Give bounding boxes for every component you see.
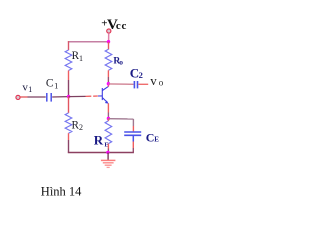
node collector [107, 82, 110, 85]
wire RE bottom lead [107, 144, 109, 149]
resistor R2 [65, 113, 72, 133]
ground [101, 153, 116, 168]
node ground junction [106, 151, 109, 154]
label CE [146, 131, 160, 145]
wire R2 top lead [68, 97, 70, 113]
resistor R1 [65, 50, 72, 71]
wire top rail [68, 41, 109, 43]
wire collector lead [107, 84, 109, 87]
resistor RE [105, 121, 112, 144]
wire R1 bottom lead [68, 71, 70, 81]
wire input to C1 [20, 96, 27, 98]
wire R2 bottom lead [68, 133, 70, 140]
label Ro [113, 56, 123, 66]
wire bottom rail [68, 152, 134, 154]
svg-text:E: E [154, 136, 159, 144]
label vo [150, 73, 164, 88]
svg-text:1: 1 [28, 85, 32, 94]
wire emitter to CE branch [108, 118, 133, 120]
wire R1 top lead [68, 41, 70, 50]
wire base junction to transistor [69, 95, 86, 97]
svg-text:2: 2 [79, 123, 83, 132]
wire Ro bottom lead [107, 70, 109, 77]
capacitor C2 [134, 81, 137, 88]
svg-text:v: v [150, 73, 157, 88]
label +Vcc [101, 17, 127, 33]
wire Vcc stem [108, 33, 110, 41]
capacitor C1 [47, 93, 51, 102]
wire C2 output stub [138, 83, 148, 85]
node emitter junction [107, 117, 110, 120]
label R2 [72, 119, 84, 132]
label C1 [46, 78, 58, 91]
label R1 [72, 50, 83, 63]
wire collector to C2 [108, 83, 133, 85]
resistor Ro [105, 49, 112, 70]
wire C1 to base junction [52, 96, 68, 98]
label v1 [22, 82, 32, 95]
svg-text:o: o [159, 78, 164, 88]
svg-text:C: C [146, 131, 155, 145]
wire Ro top lead [108, 42, 110, 50]
input terminal circle v1 [16, 95, 20, 99]
svg-text:1: 1 [79, 54, 83, 63]
svg-text:C: C [46, 78, 54, 90]
capacitor CE [124, 132, 141, 135]
svg-text:Hình 14: Hình 14 [41, 184, 82, 198]
wire CE top stem [132, 119, 134, 126]
transistor emitter arrow [105, 101, 109, 104]
svg-text:2: 2 [139, 70, 143, 80]
wire emitter lead [107, 103, 109, 112]
svg-text:R: R [94, 133, 104, 148]
Vcc terminal circle [107, 29, 111, 33]
label RE [94, 133, 109, 149]
svg-text:cc: cc [116, 20, 127, 32]
transistor Q1 [98, 86, 108, 102]
node Vcc rail junction [107, 40, 110, 43]
svg-text:1: 1 [54, 81, 58, 91]
wire CE bottom stem [132, 136, 134, 142]
node base junction [67, 95, 70, 98]
svg-text:o: o [119, 57, 123, 66]
wire RE top lead [107, 119, 109, 122]
label C2 [130, 65, 143, 80]
